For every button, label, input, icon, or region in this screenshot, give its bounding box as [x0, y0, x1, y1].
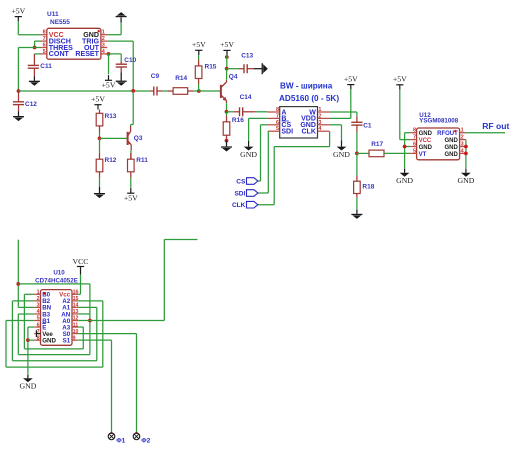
wire collector junction down to Q4	[226, 69, 228, 80]
svg-text:2: 2	[37, 296, 40, 302]
ground (earth, rotated right) after C13	[254, 63, 268, 74]
ground (earth) below R12	[94, 187, 105, 198]
svg-text:5: 5	[413, 148, 416, 154]
svg-text:C11: C11	[40, 63, 52, 70]
svg-text:R18: R18	[362, 184, 374, 191]
svg-text:3: 3	[461, 142, 464, 148]
svg-text:5: 5	[43, 49, 46, 55]
svg-text:Q3: Q3	[134, 135, 143, 142]
resistor R14	[168, 75, 194, 94]
wire +5V to U11 VCC pin 8	[17, 21, 19, 34]
svg-text:GND: GND	[19, 382, 36, 391]
svg-text:C12: C12	[25, 101, 37, 108]
wire U11 CONT pin 5 to C11	[34, 53, 40, 55]
analog multiplexer U10 CD74HC4052E body	[34, 269, 78, 345]
svg-text:+5V: +5V	[11, 6, 25, 15]
svg-text:CLK: CLK	[232, 202, 246, 209]
svg-text:R14: R14	[175, 75, 187, 82]
node U12 GND pin 6 junction	[403, 145, 407, 149]
wire oscillator rail to C9	[19, 90, 151, 92]
svg-text:1: 1	[461, 128, 464, 134]
svg-text:YSGM081008: YSGM081008	[419, 118, 458, 125]
svg-text:GND: GND	[444, 138, 458, 144]
svg-text:BW - ширина: BW - ширина	[280, 82, 333, 91]
wire U10 A0 pin 12 out right and up (dangling end)	[78, 320, 164, 322]
svg-text:R16: R16	[232, 117, 244, 124]
wire U11 GND pin 1 to top earth	[107, 34, 121, 36]
port CLK input connector	[232, 201, 258, 209]
svg-text:3: 3	[37, 303, 40, 309]
wire Q4 emitter down to C14 junction	[226, 103, 228, 112]
wire U12 GND pin 8 / pin 6 to GND arrow	[405, 132, 411, 134]
wire U11 DISCH pin 7 to THRES junction	[35, 40, 41, 42]
wire U10 B0 pin 1 loop to A3 pin 11	[24, 293, 34, 295]
svg-text:4: 4	[37, 309, 40, 315]
svg-text:R15: R15	[205, 64, 217, 71]
svg-text:Φ2: Φ2	[141, 438, 150, 445]
svg-text:U11: U11	[47, 11, 59, 18]
node U12 GND pin 4 junction	[464, 152, 468, 156]
VCC supply symbol above U10	[72, 257, 88, 275]
wire feeder branch across to A0 column	[18, 283, 90, 285]
svg-text:C10: C10	[124, 57, 136, 64]
port Phi1 clock output connector	[108, 433, 125, 445]
ground GND arrow below AD5160 pin 3	[333, 140, 350, 159]
svg-text:14: 14	[73, 303, 79, 309]
wire AD5160 W pin 1 to C1	[329, 111, 357, 113]
svg-text:13: 13	[73, 309, 79, 315]
node rail TRIG/Q3 junction	[131, 89, 135, 93]
svg-text:C1: C1	[363, 122, 372, 129]
wire R11 to +5V	[130, 178, 132, 188]
svg-text:GND: GND	[444, 152, 458, 158]
svg-text:GND: GND	[419, 131, 433, 137]
ground GND arrow below U12 right	[457, 169, 474, 185]
ground (earth) below R18	[351, 210, 362, 219]
node RESET junction	[107, 52, 111, 56]
ground (earth) below C12	[13, 111, 24, 121]
node A0 row junction	[88, 319, 92, 323]
+5V supply symbol (top-left, feeds U11 VCC pin 8)	[11, 6, 25, 21]
ground (earth) below C11	[29, 77, 40, 86]
wire VCC to U10 Vcc pin 16	[80, 275, 82, 295]
svg-text:Φ1: Φ1	[116, 438, 125, 445]
ground (earth) below R16	[221, 141, 232, 152]
capacitor C1	[351, 116, 372, 131]
svg-text:R12: R12	[105, 157, 117, 164]
svg-text:VCC: VCC	[72, 257, 88, 266]
wire U11 THRES pin 6 left and down to oscillator rail	[18, 47, 40, 49]
+5V supply symbol above R13	[91, 95, 105, 110]
transistor Q4 (NPN)	[221, 74, 238, 104]
wire R14 to base junction	[193, 90, 199, 92]
svg-text:GND: GND	[42, 337, 56, 344]
svg-text:2: 2	[461, 135, 464, 141]
svg-text:2: 2	[318, 113, 321, 119]
wire AD5160 B pin 7 to GND arrow	[249, 117, 268, 119]
svg-text:C9: C9	[151, 73, 160, 80]
ground GND arrow below B pin	[240, 141, 257, 159]
svg-text:R11: R11	[136, 157, 148, 164]
node rail left junction (THRES/C12)	[17, 89, 21, 93]
node Q4 emitter / C14 / R16 junction	[225, 110, 229, 114]
op-amp U11 NE555 timer IC body	[41, 11, 108, 59]
wire U12 GND pins 2,3,4 tied to GND arrow	[465, 140, 467, 169]
svg-text:VT: VT	[419, 152, 427, 158]
wire U10 S1 pin 9 to port Phi1	[78, 339, 111, 341]
svg-text:RF out: RF out	[482, 121, 509, 131]
wire U10 GND pin 8	[28, 339, 34, 341]
resistor R16	[223, 112, 244, 139]
wire base junction to Q3	[100, 137, 127, 139]
node U12 GND pin 3 junction	[464, 145, 468, 149]
wire C14 to AD5160 pin A	[255, 111, 268, 113]
svg-text:CONT: CONT	[49, 50, 70, 58]
svg-text:GND: GND	[444, 145, 458, 151]
svg-text:RESET: RESET	[75, 50, 99, 58]
wire U11 TRIG pin 2 down to oscillator rail	[107, 40, 133, 42]
node Q4 base junction	[197, 89, 201, 93]
port SDI input connector	[234, 190, 257, 198]
svg-text:GND: GND	[333, 150, 350, 159]
wire +5V to U12 VCC pin 7	[399, 90, 401, 140]
svg-text:12: 12	[73, 316, 79, 322]
wire CS port to AD5160 CS pin 6	[258, 180, 261, 182]
svg-text:S1: S1	[63, 337, 71, 344]
svg-text:+5V: +5V	[393, 75, 407, 84]
svg-text:6: 6	[276, 120, 279, 126]
svg-text:6: 6	[413, 142, 416, 148]
node R16 bottom junction	[225, 139, 229, 143]
transistor Q3 (PNP)	[128, 126, 143, 150]
+5V supply symbol (flipped) below R11	[124, 188, 138, 202]
svg-text:GND: GND	[396, 176, 413, 185]
svg-text:+5V: +5V	[344, 74, 358, 83]
svg-text:15: 15	[73, 296, 79, 302]
resistor R18	[354, 153, 375, 197]
wire CLK port to AD5160 CLK pin 4	[258, 204, 274, 206]
svg-text:+5V: +5V	[124, 193, 138, 202]
node Phi1 wire end	[110, 432, 112, 434]
wire R13 bottom to base junction	[99, 132, 101, 139]
svg-text:9: 9	[73, 335, 76, 341]
wire U10 B1 pin 5 loop to A2 pin 15	[6, 320, 34, 322]
ground (earth, rotated up) above U11	[116, 12, 127, 22]
wire R15 bottom to base junction	[198, 84, 200, 91]
+5V supply symbol above Q4 collector	[220, 40, 234, 55]
wire U10 BN pin 3	[18, 306, 34, 308]
svg-text:7: 7	[43, 36, 46, 42]
wire R12 to ground	[99, 178, 101, 187]
wire A0 column vertical	[89, 284, 91, 355]
svg-text:+5V: +5V	[91, 95, 105, 104]
svg-text:R13: R13	[105, 113, 117, 120]
svg-text:8: 8	[276, 107, 279, 113]
svg-text:1: 1	[102, 30, 105, 36]
svg-text:GND: GND	[240, 150, 257, 159]
wire Q3 emitter to R11	[130, 150, 132, 159]
svg-text:Q4: Q4	[229, 74, 238, 81]
capacitor C14	[227, 94, 256, 116]
wire C9 to R14	[163, 90, 168, 92]
wire U10 E pin 6 to GND pin 8	[28, 326, 34, 328]
+5V supply symbol (flipped) at U11 RESET	[102, 75, 116, 89]
+5V supply symbol above U12 VCC	[393, 75, 407, 90]
wire U12 RFOUT pin 1 output	[466, 132, 505, 134]
port Phi2 clock output connector	[133, 433, 150, 445]
svg-text:VCC: VCC	[419, 138, 432, 144]
port CS input connector	[236, 178, 258, 186]
wire U10 B2 pin 2 loop to A1 pin 14	[12, 300, 34, 302]
svg-text:C13: C13	[241, 53, 253, 60]
wire AD5160 GND pin 3 to GND arrow	[329, 124, 341, 126]
node DISCH/THRES junction	[33, 46, 37, 50]
resistor R17	[357, 141, 410, 157]
svg-text:AD5160 (0 - 5K): AD5160 (0 - 5K)	[279, 94, 339, 103]
svg-text:5: 5	[37, 316, 40, 322]
svg-text:16: 16	[73, 290, 79, 296]
node +5V / collector wire junction	[225, 55, 229, 59]
svg-text:8: 8	[37, 335, 40, 341]
svg-text:GND: GND	[419, 145, 433, 151]
ground GND arrow below U10	[19, 375, 36, 391]
svg-text:R17: R17	[371, 141, 383, 148]
svg-text:7: 7	[413, 135, 416, 141]
wire Q3 collector jog up to rail	[130, 125, 132, 127]
svg-text:5: 5	[276, 126, 279, 132]
node C1/R17/R18 junction	[355, 152, 359, 156]
svg-text:CS: CS	[236, 178, 246, 185]
wire U10 AN pin 13 to feeder column	[78, 313, 90, 315]
svg-text:+5V: +5V	[220, 40, 234, 49]
wire U11 RESET pin 4 to C10 and +5V	[107, 53, 121, 55]
wire C1 bottom to R17/R18 node	[356, 132, 358, 154]
wire SDI port to AD5160 SDI pin 5	[258, 192, 268, 194]
capacitor C13	[227, 53, 254, 74]
svg-text:8: 8	[43, 30, 46, 36]
capacitor C11	[28, 63, 53, 76]
wire U10 B3 pin 4 loop to feeder bottom	[18, 313, 34, 315]
svg-text:8: 8	[413, 128, 416, 134]
svg-text:GND: GND	[457, 176, 474, 185]
svg-text:+5V: +5V	[102, 81, 116, 90]
digital potentiometer U-AD5160 IC body	[268, 82, 340, 138]
wire R18 to ground	[356, 198, 358, 210]
ground (earth) below C10	[116, 73, 127, 86]
svg-text:6: 6	[43, 43, 46, 49]
node Phi2 wire end	[135, 432, 137, 434]
resistor R13	[96, 110, 117, 132]
svg-text:NE555: NE555	[50, 19, 70, 26]
svg-text:3: 3	[102, 43, 105, 49]
svg-text:7: 7	[276, 113, 279, 119]
svg-text:6: 6	[37, 322, 40, 328]
svg-text:10: 10	[73, 329, 79, 335]
svg-text:+5V: +5V	[192, 40, 206, 49]
svg-text:SDI: SDI	[281, 129, 293, 136]
wire U10 S0 pin 10 to port Phi2	[78, 333, 136, 335]
wire BN feeder from above (dangling top)	[17, 240, 19, 308]
svg-text:SDI: SDI	[234, 190, 245, 197]
capacitor C12	[13, 92, 37, 111]
resistor R12	[96, 138, 117, 177]
svg-text:C14: C14	[240, 94, 252, 101]
node BN feeder junction	[16, 282, 20, 286]
capacitor C10	[116, 57, 137, 73]
node R13/R12/Q3 base junction	[98, 137, 102, 141]
wire base junction to Q4 base	[199, 90, 220, 92]
svg-text:3: 3	[318, 120, 321, 126]
+5V supply symbol above R15	[192, 40, 206, 55]
node U10 GND pin 8 junction	[26, 338, 30, 342]
resistor R15	[195, 55, 217, 84]
ground GND arrow below U12 left	[396, 169, 413, 185]
resistor R11	[128, 153, 149, 178]
svg-text:1: 1	[318, 107, 321, 113]
RF oscillator module U12 YSGM081008 body	[410, 112, 466, 160]
wire +5V to AD5160 VDD pin 2	[350, 89, 352, 118]
wire +5V down to collector junction	[226, 55, 228, 68]
capacitor C9	[150, 73, 162, 95]
svg-text:2: 2	[102, 36, 105, 42]
svg-text:11: 11	[73, 322, 79, 328]
svg-text:1: 1	[37, 290, 40, 296]
node Q4 collector / C13 junction	[225, 67, 229, 71]
svg-text:U10: U10	[53, 269, 65, 276]
svg-text:CLK: CLK	[302, 129, 316, 136]
ground bar symbol at U10 Vee pin 7	[36, 330, 41, 337]
+5V supply symbol above AD5160 VDD	[344, 74, 358, 89]
